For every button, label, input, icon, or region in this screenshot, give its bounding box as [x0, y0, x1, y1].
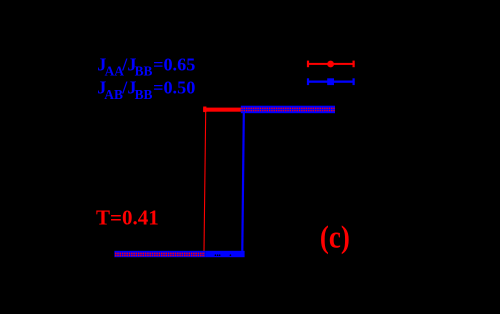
lower branch overlap segment (blue with red dots) [114, 251, 205, 257]
red transition vertical [204, 112, 206, 252]
svg-text:(c): (c) [320, 221, 350, 256]
legend red errorbar with circle marker [307, 61, 355, 68]
lower branch blue solid segment [205, 251, 244, 257]
dark dots on lower branch [215, 254, 232, 256]
svg-text:T=0.41: T=0.41 [96, 206, 159, 230]
blue transition vertical [242, 113, 244, 251]
label JAB/JBB=0.50 [97, 77, 195, 102]
label JAA/JBB=0.65 [97, 54, 195, 78]
svg-text:BB: BB [135, 64, 153, 79]
svg-text:=0.50: =0.50 [153, 77, 195, 97]
label (c) [320, 221, 350, 256]
svg-text:AB: AB [104, 87, 123, 102]
red curve upper branch solid segment [203, 107, 241, 113]
upper branch overlap segment (blue with red dots) [241, 106, 335, 114]
legend blue errorbar with square marker [307, 78, 355, 85]
svg-text:BB: BB [135, 87, 153, 102]
svg-text:=0.65: =0.65 [153, 54, 195, 74]
